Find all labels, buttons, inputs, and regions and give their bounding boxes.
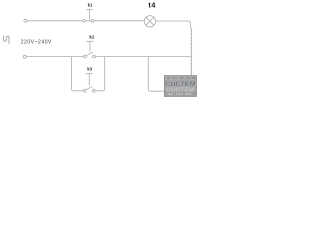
wire: top horizontal, terminal to lamp	[27, 20, 144, 22]
wire: bottom horizontal left of switch k2	[26, 56, 83, 58]
svg-text:k2: k2	[89, 34, 94, 39]
wire: lamp to top-right corner, down right side	[156, 21, 191, 28]
terminal (line N, bottom)	[23, 55, 26, 58]
AC source sine symbol	[4, 36, 9, 45]
wire: right vertical of parallel branch	[95, 57, 105, 91]
svg-text:k3: k3	[87, 66, 92, 71]
switch k3 (contacts and blade)	[83, 74, 95, 92]
wire: mid vertical drop and bottom run to heater	[148, 57, 190, 92]
terminal (line L, top)	[24, 19, 27, 22]
svg-text:k1: k1	[88, 2, 93, 7]
wire: bottom horizontal right of switch k2 to heater	[95, 56, 190, 58]
lamp E (circle with cross)	[144, 16, 155, 27]
switch k2 (contacts and blade)	[84, 41, 96, 58]
svg-text:t4: t4	[148, 1, 156, 10]
watermark box	[164, 76, 196, 97]
svg-text:220V~240V: 220V~240V	[21, 39, 52, 45]
heating element (wavy line, right side)	[190, 28, 191, 91]
pushbutton k1 (contacts, stem, cap)	[83, 10, 94, 22]
wire: left vertical of parallel branch	[72, 57, 84, 91]
